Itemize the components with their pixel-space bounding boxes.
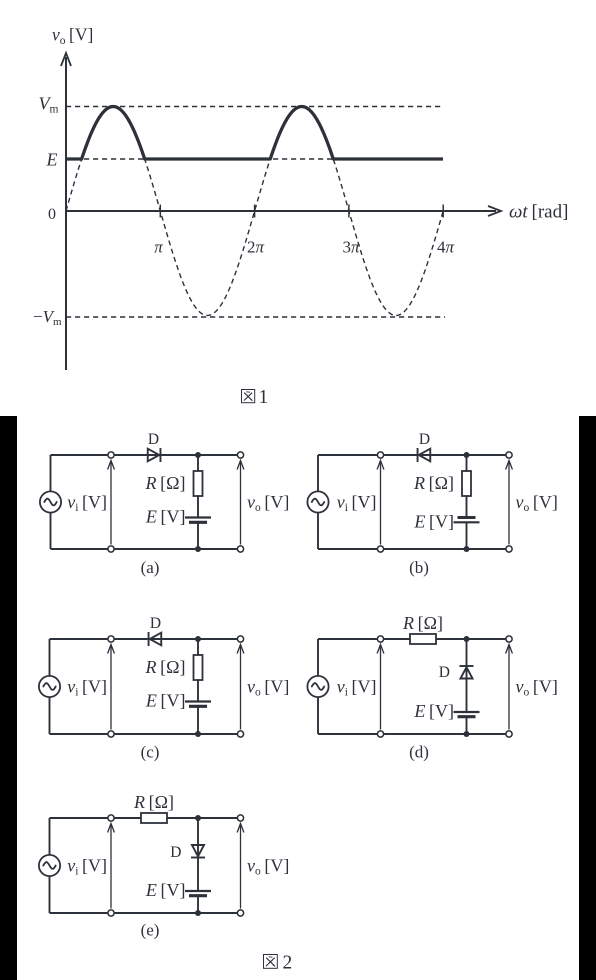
svg-text:(d): (d) <box>409 743 429 762</box>
svg-text:ωt [rad]: ωt [rad] <box>509 202 568 223</box>
svg-text:3π: 3π <box>342 238 360 257</box>
svg-text:R [Ω]: R [Ω] <box>413 473 454 493</box>
svg-text:R [Ω]: R [Ω] <box>145 657 186 677</box>
svg-text:vo [V]: vo [V] <box>247 492 289 514</box>
svg-text:vo [V]: vo [V] <box>516 677 558 699</box>
svg-text:E [V]: E [V] <box>413 701 454 721</box>
svg-text:vo [V]: vo [V] <box>516 492 558 514</box>
svg-text:1: 1 <box>259 387 269 408</box>
svg-text:(e): (e) <box>141 921 160 940</box>
svg-text:0: 0 <box>48 206 56 223</box>
svg-text:E [V]: E [V] <box>413 511 454 531</box>
svg-text:4π: 4π <box>437 238 455 257</box>
svg-text:D: D <box>150 615 161 632</box>
svg-text:2: 2 <box>283 953 293 974</box>
svg-text:π: π <box>154 238 163 257</box>
svg-text:E [V]: E [V] <box>145 507 186 527</box>
svg-text:D: D <box>419 431 430 448</box>
svg-text:D: D <box>439 664 450 681</box>
svg-text:(b): (b) <box>409 558 429 577</box>
svg-text:vo [V]: vo [V] <box>52 25 93 48</box>
svg-text:R [Ω]: R [Ω] <box>402 613 443 633</box>
svg-text:vi [V]: vi [V] <box>67 677 107 699</box>
svg-text:E [V]: E [V] <box>145 880 186 900</box>
svg-text:(a): (a) <box>141 558 160 577</box>
svg-text:R [Ω]: R [Ω] <box>145 473 186 493</box>
svg-text:2π: 2π <box>247 238 265 257</box>
svg-text:vo [V]: vo [V] <box>247 856 289 878</box>
svg-text:D: D <box>170 844 181 861</box>
svg-text:vi [V]: vi [V] <box>337 677 377 699</box>
svg-text:(c): (c) <box>141 743 160 762</box>
svg-text:vi [V]: vi [V] <box>67 492 107 514</box>
svg-text:Vm: Vm <box>39 94 59 116</box>
svg-text:R [Ω]: R [Ω] <box>133 792 174 812</box>
svg-text:D: D <box>148 431 159 448</box>
svg-text:vi [V]: vi [V] <box>337 492 377 514</box>
svg-text:E [V]: E [V] <box>145 691 186 711</box>
svg-text:vo [V]: vo [V] <box>247 677 289 699</box>
svg-text:−Vm: −Vm <box>33 307 62 328</box>
svg-text:E: E <box>46 150 58 170</box>
svg-text:vi [V]: vi [V] <box>67 856 107 878</box>
